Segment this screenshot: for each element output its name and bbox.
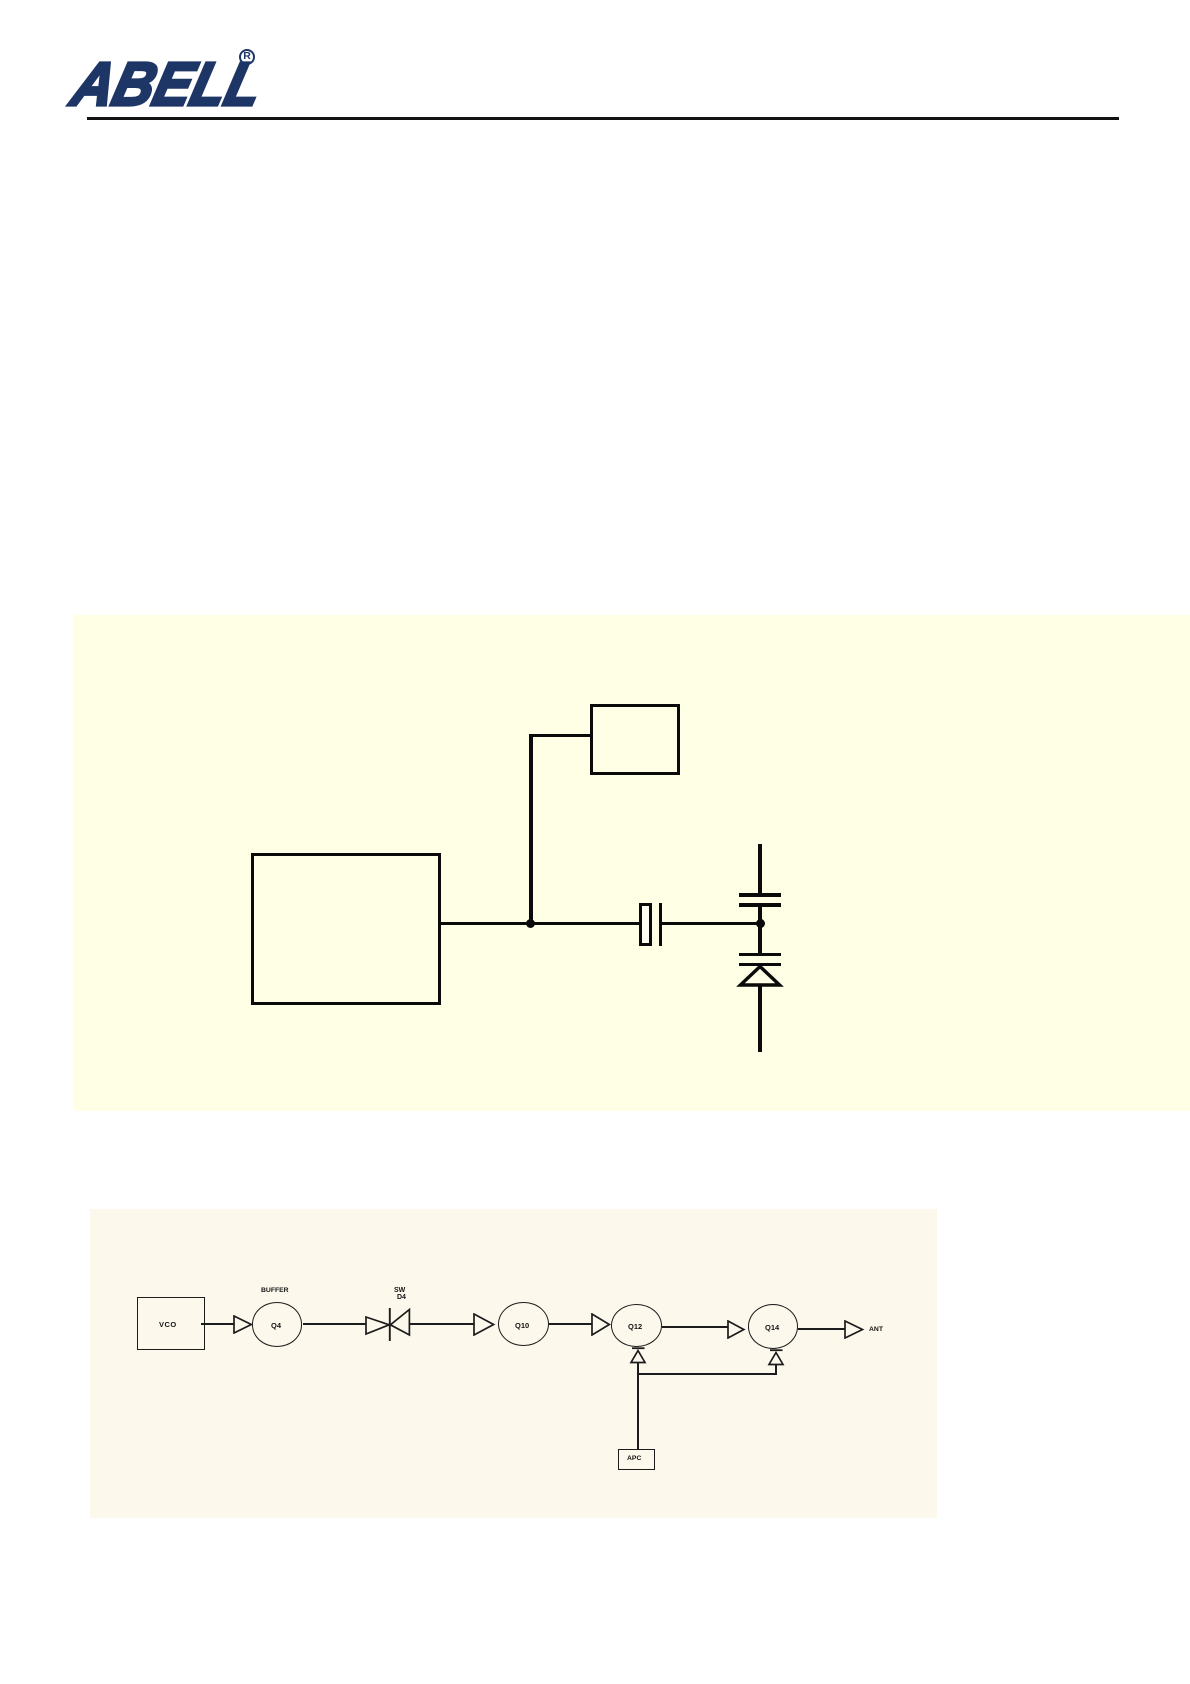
wire: D4 to amp 2 <box>410 1323 474 1325</box>
amp 3 arrow <box>591 1313 612 1336</box>
wire: VCO to buffer amp <box>201 1323 234 1325</box>
wire: Q10 to amp 3 <box>549 1323 592 1325</box>
stage Q12 circle <box>611 1304 663 1348</box>
switch diode D4 bowtie <box>364 1306 412 1343</box>
Q14 label <box>765 1323 779 1332</box>
crystal right plate <box>659 903 662 946</box>
capacitor C1 plate 2 <box>739 903 781 907</box>
Q10 label <box>515 1320 529 1329</box>
node B junction dot <box>756 919 765 928</box>
output amp arrow <box>844 1320 865 1339</box>
stage Q10 circle <box>498 1302 549 1346</box>
wire: C1 to node B <box>758 907 761 954</box>
svg-text:ABELL: ABELL <box>64 51 270 119</box>
Q4 label <box>271 1321 281 1330</box>
varactor D1 bottom lead <box>758 985 761 1052</box>
APC arrow into Q14 <box>766 1348 786 1367</box>
capacitor C1 plate 1 <box>739 893 781 897</box>
node A junction dot <box>526 919 535 928</box>
BUFFER label <box>261 1286 289 1293</box>
header rule <box>87 117 1119 120</box>
APC block <box>618 1449 655 1470</box>
wire: horizontal to top box <box>529 734 590 737</box>
wire: vertical riser to top box <box>529 734 532 924</box>
APC label <box>627 1455 641 1462</box>
wire: Q12 to amp 4 <box>662 1326 728 1328</box>
buffer amp arrow <box>233 1315 253 1334</box>
APC arrow into Q12 <box>628 1346 648 1365</box>
ABELL logo <box>43 42 323 122</box>
varactor D1 anode triangle <box>735 962 785 990</box>
feedback horizontal wire <box>637 1373 776 1375</box>
oscillator block U1 <box>251 853 441 1005</box>
varactor D1 cathode bar 1 <box>739 953 781 957</box>
capacitor C1 top lead <box>758 844 761 893</box>
wire: Q4 to switch D4 <box>303 1323 366 1325</box>
wire: Q12 arrow down to feedback <box>637 1363 639 1450</box>
wire: block to node A <box>438 922 639 925</box>
D4 label <box>397 1294 406 1301</box>
VCO block <box>137 1297 205 1350</box>
buffer stage Q4 circle <box>252 1302 303 1346</box>
wire: feedback up to Q14 arrow <box>775 1365 777 1375</box>
wire: Q14 to output amp <box>798 1328 845 1330</box>
amp 2 arrow <box>473 1313 496 1336</box>
beige panel 1 : circuit schematic <box>73 615 1190 1111</box>
Q12 label <box>628 1322 642 1331</box>
SW label <box>394 1286 405 1293</box>
ANT label <box>869 1326 883 1333</box>
registered mark <box>239 49 255 65</box>
crystal X1 (series element) <box>639 903 652 946</box>
wire: crystal to node B <box>662 922 759 925</box>
stage Q14 circle <box>748 1304 798 1349</box>
amp 4 arrow <box>727 1320 746 1339</box>
beige panel 2 : block diagram <box>90 1209 937 1518</box>
VCO label <box>159 1320 177 1329</box>
varactor D1 cathode bar 2 <box>739 963 781 967</box>
control block U2 (small box) <box>590 704 680 775</box>
